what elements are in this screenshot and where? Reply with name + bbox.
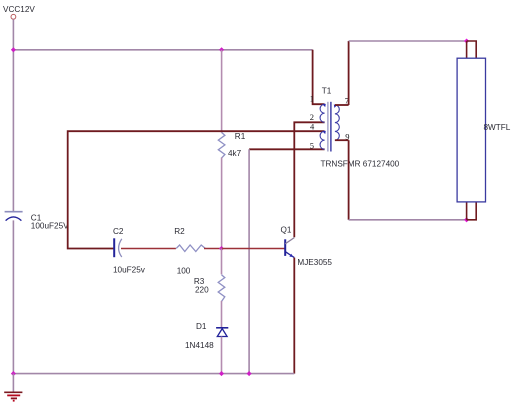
- transformer T1 feedback winding pins 4-5: [320, 131, 326, 150]
- wire C2 to R2: [121, 248, 176, 250]
- wire R1 bottom to base node: [221, 158, 223, 249]
- junction ground / pin5 branch: [247, 371, 252, 376]
- junction ground / VCC branch: [11, 371, 16, 376]
- power symbol VCC12V: [3, 5, 35, 19]
- junction lamp bottom: [464, 217, 469, 222]
- svg-text:MJE3055: MJE3055: [297, 258, 332, 267]
- wire R3 to D1: [221, 301, 223, 327]
- wire lamp bottom pin stubs: [467, 202, 477, 220]
- wire pin 9 stub: [335, 139, 349, 141]
- wire pin 7 vertical up: [348, 41, 350, 105]
- svg-text:VCC12V: VCC12V: [3, 5, 35, 14]
- wire R1 column upper: [221, 50, 223, 133]
- junction R1 / top rail: [219, 47, 224, 52]
- svg-text:R2: R2: [174, 227, 185, 236]
- svg-text:TRNSFMR 67127400: TRNSFMR 67127400: [321, 160, 400, 169]
- ground symbol: [4, 374, 22, 401]
- transformer T1 core: [328, 102, 331, 152]
- svg-text:8WTFL: 8WTFL: [484, 123, 511, 132]
- wire pin 9 vertical down: [348, 140, 350, 220]
- svg-text:4k7: 4k7: [228, 149, 242, 158]
- svg-text:Q1: Q1: [281, 226, 292, 235]
- wire VCC vertical lower: [12, 220, 14, 373]
- diode D1: [185, 322, 228, 350]
- junction VCC / top rail: [11, 47, 16, 52]
- wire pin 7 stub: [335, 104, 349, 106]
- svg-text:D1: D1: [196, 322, 207, 331]
- wire bottom ground rail: [13, 373, 294, 375]
- svg-text:1: 1: [310, 94, 314, 104]
- wire top rail: [13, 49, 312, 51]
- svg-text:220: 220: [195, 286, 209, 295]
- transformer T1 primary winding pins 1-2: [320, 104, 326, 123]
- junction lamp top: [464, 38, 469, 43]
- wire pin 4 feedback loop: [68, 131, 325, 248]
- svg-text:2: 2: [310, 112, 314, 122]
- junction ground / D1 branch: [219, 371, 224, 376]
- lamp 8WTFL: [457, 58, 511, 202]
- wire D1 to ground rail: [221, 337, 223, 374]
- resistor R1: [218, 132, 245, 158]
- capacitor C1: [5, 212, 70, 231]
- wire VCC vertical upper: [12, 19, 14, 211]
- wire pin 5 vertical to ground rail: [248, 149, 250, 373]
- transistor Q1: [281, 226, 333, 267]
- svg-text:100uF25V: 100uF25V: [31, 221, 69, 230]
- wire base node to Q1 base: [222, 248, 286, 250]
- wire base node to R3: [221, 249, 223, 275]
- svg-text:R1: R1: [235, 132, 246, 141]
- resistor R2: [174, 227, 205, 275]
- svg-text:T1: T1: [322, 86, 332, 95]
- svg-text:100: 100: [177, 266, 191, 275]
- svg-text:C2: C2: [113, 227, 124, 236]
- capacitor C2: [113, 227, 146, 275]
- wire pin 2 to collector: [294, 122, 324, 237]
- junction base node: [219, 246, 224, 251]
- wire lamp top horizontal: [349, 40, 467, 42]
- wire pin 1 from top rail: [313, 50, 325, 104]
- svg-text:10uF25v: 10uF25v: [113, 265, 146, 274]
- transformer T1 secondary winding pins 7-9: [334, 105, 340, 141]
- wire R2 to base node: [204, 248, 222, 250]
- wire emitter to ground rail: [293, 258, 295, 374]
- wire pin 5 stub: [249, 148, 325, 150]
- wire lamp bottom horizontal: [349, 219, 467, 221]
- wire lamp top pin stubs: [467, 41, 477, 58]
- svg-text:5: 5: [310, 140, 314, 150]
- resistor R3: [194, 275, 225, 302]
- svg-text:1N4148: 1N4148: [185, 341, 214, 350]
